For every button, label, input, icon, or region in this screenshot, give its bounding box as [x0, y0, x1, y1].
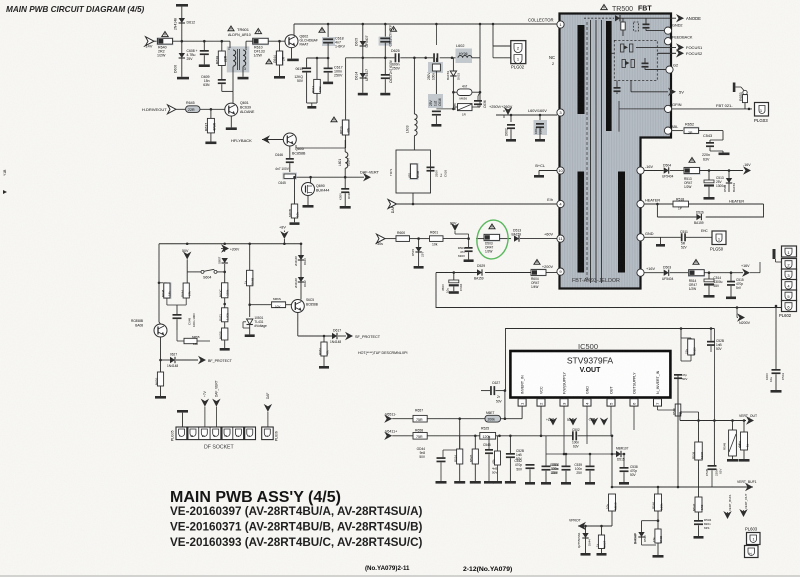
- diode D606: [181, 41, 183, 53]
- FBT pin G2: [666, 66, 673, 73]
- capacitor C626: [427, 167, 435, 169]
- capacitor C543: [722, 131, 724, 140]
- capacitor C621: [384, 24, 386, 38]
- capacitor D602: [510, 115, 512, 122]
- transistor Q603: [291, 300, 304, 313]
- FBT right pin -16V: [637, 167, 644, 174]
- capacitor C646: [289, 146, 291, 158]
- wire input rows: [392, 418, 413, 420]
- diode D536: [641, 521, 643, 532]
- resistor R524: [459, 436, 461, 449]
- FBT pin 9 +200V: [557, 268, 564, 275]
- resistor R650: [271, 301, 286, 308]
- ground under D606: [177, 77, 189, 80]
- resistor R535: [497, 436, 499, 451]
- resistor R647: [186, 272, 188, 283]
- resistor R608: [410, 163, 419, 180]
- FBT pin ABL: [664, 127, 671, 134]
- capacitor C528: [509, 436, 511, 453]
- FBT right pin +16V: [637, 269, 644, 276]
- connector PLG02: [511, 41, 526, 64]
- wire VERT_BUF1 row: [612, 486, 753, 488]
- resistor R541: [743, 421, 745, 433]
- inductor L603: [413, 58, 415, 114]
- IC601 TL431: [249, 305, 251, 317]
- resistor R652: [684, 127, 700, 134]
- transistor Q690 mosfet: [302, 183, 315, 196]
- net arrow DAF-VERT out: [363, 173, 371, 181]
- wire snubber row: [346, 57, 395, 59]
- Q602 collector riser: [293, 24, 295, 36]
- switch S604: [187, 271, 201, 273]
- net arrow DAF: [388, 200, 397, 209]
- resistor R610: [255, 29, 261, 34]
- wire Q605 collector from R619: [296, 147, 346, 149]
- junction +200V wire: [736, 306, 739, 309]
- wire to C648: [166, 298, 168, 305]
- Q602 emitter to ground: [291, 48, 293, 59]
- FBT right pin GND: [637, 234, 644, 241]
- scan bottom edge artifact: [0, 575, 800, 576]
- FBT G2 wire: [646, 69, 666, 71]
- net arrow SF_PROTECT: [345, 332, 353, 340]
- wire base Q605 HFLYBACK: [262, 139, 283, 141]
- diode D605: [362, 24, 364, 41]
- resistor R530: [611, 486, 614, 489]
- left edge arrow mark: [3, 190, 7, 194]
- resistor R604: [534, 260, 540, 265]
- capacitor C538: [623, 454, 625, 467]
- zener D644: [585, 526, 587, 533]
- capacitor C648: [173, 314, 182, 316]
- capacitor C535: [708, 465, 717, 467]
- Q604 emitter chain: [160, 337, 162, 360]
- FBT FOCUS2 output arrow: [658, 52, 676, 54]
- FBT right pin HEATER: [637, 200, 644, 207]
- net arrow pin5 aux: [600, 418, 608, 426]
- transistor Q601: [225, 103, 238, 116]
- wire to D515: [611, 436, 613, 487]
- op-amp IC500 STV9379FA body: [510, 351, 670, 398]
- wire heater row: [644, 203, 673, 205]
- wire gate row: [309, 176, 312, 179]
- wire from L602 down: [479, 58, 481, 107]
- capacitor C624 series: [433, 53, 435, 62]
- net arrow VERT_BUF1 down: [723, 511, 731, 519]
- ground bar near PL602: [773, 249, 776, 259]
- wire collector bus: [294, 23, 557, 25]
- FBT pin 4 E/h: [557, 200, 564, 207]
- resistor R600: [396, 235, 411, 242]
- resistor R547: [695, 497, 702, 512]
- FBT interior dashed focus box: [614, 40, 657, 80]
- diode D612 top: [176, 4, 188, 7]
- net arrow VERT_OUT down: [739, 509, 747, 517]
- resistor R648b: [249, 244, 251, 271]
- connector PLG02 riser: [492, 24, 494, 46]
- resistor R651: [222, 308, 228, 322]
- wire mid caps bus: [510, 443, 630, 445]
- wire GFIN to PLG03: [672, 108, 752, 110]
- FBT winding lines: [590, 20, 592, 283]
- capacitor C503: [468, 239, 470, 247]
- FBT interior anode diode: [584, 17, 614, 19]
- resistor R633: [176, 330, 178, 341]
- zener D502: [728, 171, 730, 179]
- capacitor C514b electrolytic: [708, 273, 710, 279]
- resistor R539: [695, 442, 703, 460]
- IC500 pin boxes: [518, 399, 526, 406]
- wire gnd row: [644, 236, 681, 238]
- FBT interior wires: [612, 52, 615, 54]
- connector PL602: [782, 246, 797, 257]
- wire heater loop: [706, 204, 764, 217]
- green marker ellipse: [474, 218, 510, 261]
- net arrow +14V: [146, 37, 155, 46]
- resistor R638: [221, 41, 223, 51]
- capacitor C542: [529, 446, 531, 464]
- capacitor C620: [384, 43, 386, 74]
- wire pin3 feed: [503, 115, 505, 118]
- net arrow +30V: [377, 234, 386, 243]
- diode D617: [298, 335, 332, 337]
- net arrow +16V: [742, 269, 750, 277]
- FBT 5V output arrow: [631, 91, 668, 93]
- wire DAF to pin4: [397, 203, 557, 205]
- capacitor C608: [203, 41, 205, 50]
- resistor R646: [159, 282, 167, 284]
- resistor R656: [160, 360, 162, 372]
- capacitor C533: [589, 454, 591, 466]
- net arrow +12V: [549, 418, 557, 426]
- FBT interior lower cap: [614, 87, 621, 89]
- resistor R661: [323, 336, 325, 342]
- net arrow -12V: [590, 418, 598, 426]
- capacitor C545: [488, 436, 490, 449]
- capacitor C618: [327, 24, 329, 38]
- wire vert out row: [680, 420, 746, 422]
- FBT FOCUS1 output arrow: [658, 46, 676, 48]
- wire pin6 row: [775, 305, 778, 308]
- resistor R644: [279, 41, 281, 51]
- FBT winding bar lower-right: [618, 172, 625, 273]
- flyback transformer TR500 body: [560, 14, 672, 289]
- FBT pin GND2: [664, 27, 671, 34]
- FBT interior dashed cap: [634, 22, 639, 31]
- net arrow VPROT: [578, 522, 586, 530]
- zener D515 22V: [418, 239, 420, 247]
- resistor R528: [680, 329, 682, 339]
- transistor Q604: [154, 324, 167, 337]
- FBT pin 11 +60V: [557, 235, 564, 242]
- net arrow VERT_BUF1: [745, 483, 753, 491]
- Q603 emitter to protect: [297, 313, 299, 337]
- net arrow -16V: [743, 166, 751, 174]
- FBT pin 1 COLLECTOR: [557, 21, 564, 28]
- connector PL606: [262, 427, 274, 440]
- diode chain D623 D622: [300, 244, 302, 255]
- resistor R658b: [222, 328, 228, 340]
- FBT winding bar upper-left: [578, 25, 585, 114]
- capacitor C616: [435, 24, 437, 45]
- FBT interior cap at G2: [642, 63, 649, 65]
- capacitor C515: [730, 273, 732, 281]
- wire -16V row: [644, 170, 664, 172]
- wire lower branch: [642, 520, 659, 522]
- resistor R627: [601, 526, 603, 535]
- wire protect top rail: [159, 243, 301, 245]
- net arrow 50V mid: [569, 418, 577, 426]
- transistor Q602: [285, 35, 298, 48]
- resistor R514: [693, 260, 699, 265]
- wire pin1 hookup: [505, 418, 522, 420]
- capacitor C531: [565, 454, 567, 466]
- FBT pin FEEDBACK: [664, 38, 671, 45]
- resistor D507 highlighted: [489, 224, 495, 229]
- resistor R526: [474, 436, 476, 449]
- wire left branch: [158, 244, 160, 322]
- resistor R538: [657, 521, 659, 529]
- wire pin10 stub: [539, 170, 557, 172]
- resistor R548: [732, 421, 734, 431]
- net arrow BF_PROTECT: [198, 356, 206, 364]
- zener S607 to +200V arrow: [224, 264, 226, 272]
- wire pins rail: [563, 406, 565, 454]
- FBT winding bar upper-center: [606, 21, 612, 131]
- FBT pin GFIN: [664, 105, 671, 112]
- ground above socket: [177, 410, 188, 413]
- wire +14V rail: [173, 40, 231, 42]
- inductor L601: [345, 152, 348, 168]
- capacitor D618: [344, 177, 346, 188]
- wire ABL net: [672, 130, 683, 132]
- transformer TR601: [228, 26, 234, 31]
- resistor R619: [345, 58, 347, 120]
- net arrow +200V down: [736, 308, 738, 314]
- wire +16V row: [644, 272, 664, 274]
- capacitor C534: [694, 520, 703, 522]
- FBT pin 10 B+: [557, 167, 564, 174]
- capacitor C636: [474, 100, 482, 102]
- resistor R655: [457, 103, 473, 111]
- capacitor C541: [775, 306, 777, 369]
- FBT interior cap to GND2: [643, 24, 650, 26]
- wire IC outer feed loop: [506, 329, 715, 391]
- connector PLG03: [755, 103, 769, 117]
- FBT pin 3: [557, 109, 564, 116]
- transistor Q605: [283, 133, 296, 146]
- FBT winding bar lower-left: [578, 172, 585, 273]
- connector PLG05 DF socket row: [176, 427, 256, 440]
- FBT focus pot upper: [621, 44, 624, 52]
- resistor R549: [658, 409, 679, 411]
- resistor R546: [657, 487, 659, 494]
- wire loop R608 C626: [396, 150, 431, 193]
- FBT focus pot lower: [622, 60, 625, 68]
- capacitor D610 and resistor R613: [307, 57, 329, 59]
- capacitor C530: [545, 444, 547, 466]
- ground stub: [660, 237, 662, 244]
- resistor R609: [294, 177, 296, 204]
- wire vcc riser: [509, 398, 511, 436]
- capacitor C529: [710, 329, 712, 341]
- capacitor C544: [442, 454, 444, 457]
- capacitor C617: [327, 44, 329, 68]
- TR601 secondary leads: [232, 67, 234, 92]
- resistor R637: [210, 109, 212, 118]
- wire +200V loop: [436, 272, 477, 274]
- resistor R513: [689, 158, 695, 163]
- resistor R653 on GFIN net: [733, 83, 736, 93]
- TR500 label: [601, 5, 607, 10]
- wire C535 riser: [713, 329, 715, 421]
- resistor R649: [224, 272, 226, 283]
- resistor R640: [162, 32, 168, 37]
- capacitor C514 electrolytic: [708, 171, 710, 181]
- paper noise: [0, 0, 1, 1]
- net arrow VERT_OUT: [746, 416, 754, 424]
- diode D614: [362, 46, 364, 73]
- capacitor C605: [539, 115, 541, 120]
- wire vert junction column: [459, 419, 461, 450]
- FBT interior resistor: [621, 22, 625, 30]
- wire out riser: [698, 412, 700, 442]
- wire caps bus: [441, 445, 530, 447]
- Q690 source ground: [307, 196, 309, 206]
- FBT ANODE output arrow: [616, 17, 676, 19]
- capacitor C604 electrolytic: [453, 273, 455, 281]
- wire base row Q603: [250, 304, 272, 306]
- capacitor D609: [221, 66, 223, 80]
- diode D615: [452, 58, 454, 71]
